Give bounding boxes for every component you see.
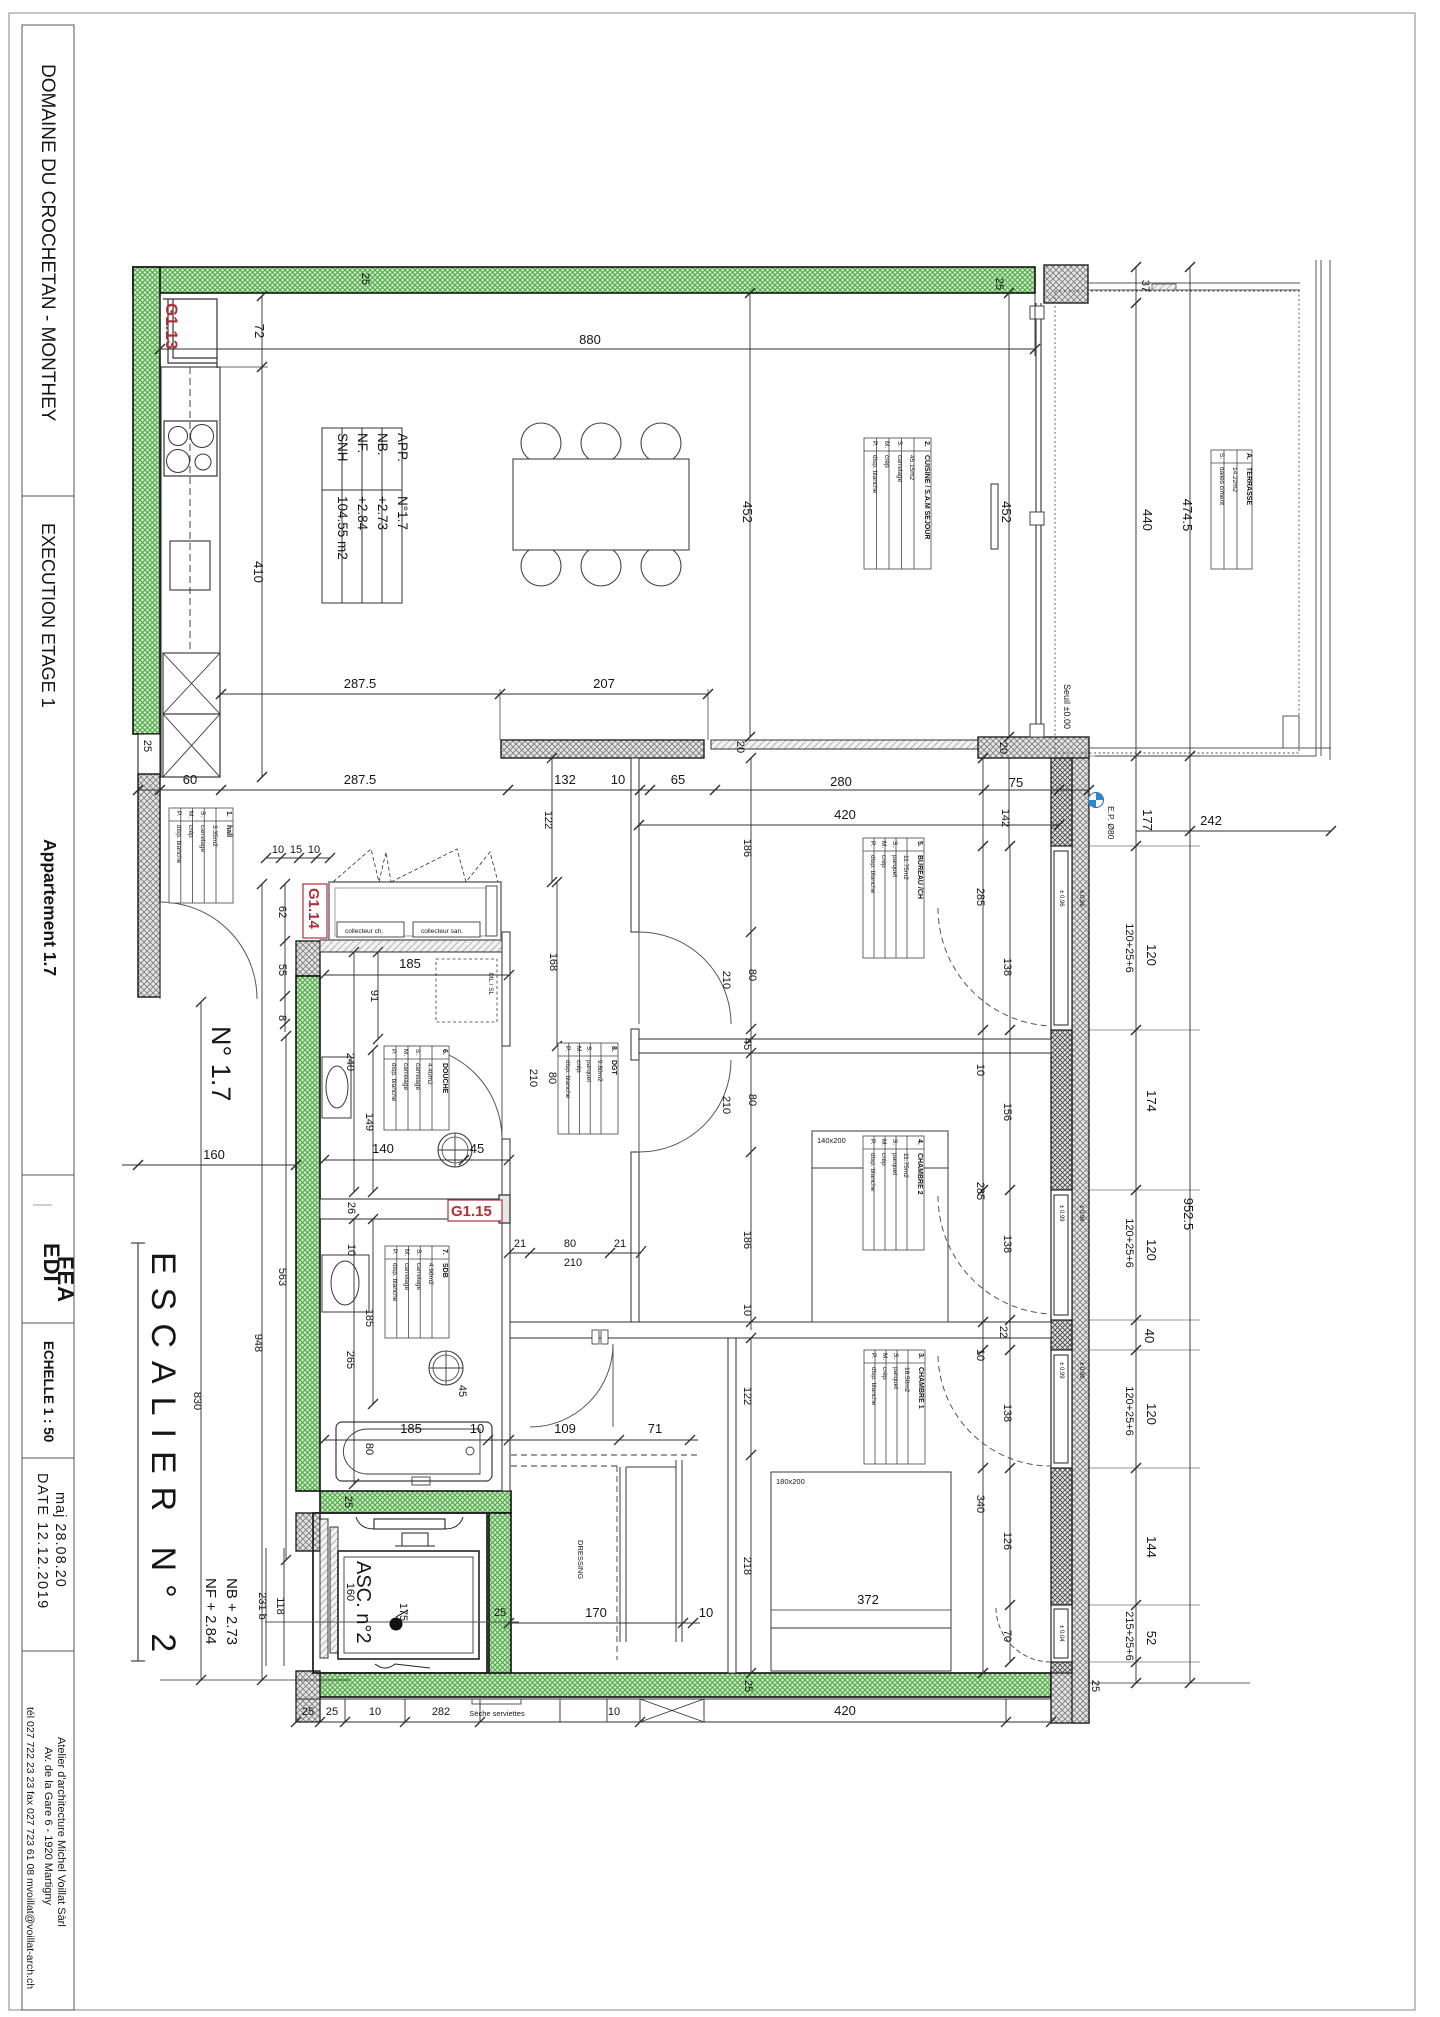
svg-text:disp. blanche: disp. blanche <box>871 455 878 494</box>
svg-text:11.75m2: 11.75m2 <box>902 855 909 880</box>
svg-text:crép: crép <box>575 1060 582 1073</box>
svg-text:S.: S. <box>892 1353 899 1359</box>
svg-text:563: 563 <box>276 1268 288 1286</box>
svg-text:55: 55 <box>276 964 288 976</box>
svg-text:hall: hall <box>225 825 232 837</box>
svg-text:± 0.99: ± 0.99 <box>1058 1205 1064 1222</box>
svg-text:340: 340 <box>974 1495 986 1513</box>
svg-text:6.: 6. <box>441 1049 448 1055</box>
niche right panel <box>486 886 497 936</box>
svg-text:CHAMBRE 2: CHAMBRE 2 <box>916 1153 923 1195</box>
svg-text:120: 120 <box>1144 944 1159 966</box>
svg-text:CHAMBRE 1: CHAMBRE 1 <box>917 1367 924 1409</box>
washbasin sdb <box>322 1255 369 1312</box>
terrace bottom lines <box>1088 747 1331 749</box>
svg-text:80: 80 <box>746 969 758 981</box>
svg-text:DGT: DGT <box>610 1060 617 1076</box>
sejour divider wall (gray) <box>501 740 704 758</box>
svg-text:G1.13: G1.13 <box>162 303 181 349</box>
closet unit <box>619 1467 621 1642</box>
svg-text:474.5: 474.5 <box>1180 499 1195 532</box>
dim 185 douche top <box>324 974 509 976</box>
svg-text:2.: 2. <box>923 441 930 447</box>
french door bureau (dashed) <box>938 908 1051 1026</box>
window bureau <box>1051 846 1072 1030</box>
svg-text:NF + 2.84: NF + 2.84 <box>202 1578 219 1644</box>
svg-text:10: 10 <box>741 1304 753 1316</box>
svg-text:11.75m2: 11.75m2 <box>902 1153 909 1178</box>
svg-text:SDB: SDB <box>441 1263 448 1278</box>
svg-text:186: 186 <box>741 1231 753 1249</box>
section line through shaft <box>265 1621 519 1623</box>
french door chambre2 (dashed) <box>938 1196 1051 1314</box>
dim line y=1440 sdb + corridor <box>324 1439 698 1441</box>
svg-text:138: 138 <box>1001 1404 1013 1422</box>
svg-text:M.: M. <box>881 1353 888 1360</box>
dim 122 corridor top <box>551 758 553 882</box>
svg-text:138: 138 <box>1001 958 1013 976</box>
svg-text:disp. blanche: disp. blanche <box>870 1367 877 1406</box>
counter centerline dashed <box>189 367 191 653</box>
room table hall <box>169 808 233 903</box>
svg-text:242: 242 <box>1200 813 1222 828</box>
svg-text:FEA: FEA <box>53 1256 78 1303</box>
svg-text:25: 25 <box>326 1706 338 1718</box>
tall cabinet 1 <box>163 653 220 714</box>
svg-text:132: 132 <box>554 772 576 787</box>
ML/SL dashed appliance box <box>436 959 497 1022</box>
right wall extension lines <box>1089 845 1200 847</box>
svg-text:parquet: parquet <box>891 855 898 877</box>
svg-text:collecteur ch.: collecteur ch. <box>345 928 383 935</box>
wall chambre2/chambre1 <box>509 1322 1051 1338</box>
dim 140/45 <box>324 1159 509 1161</box>
svg-text:25: 25 <box>494 1607 506 1619</box>
svg-text:62: 62 <box>276 906 288 918</box>
svg-text:80: 80 <box>546 1072 558 1084</box>
svg-text:420: 420 <box>834 1703 856 1718</box>
svg-text:NB.: NB. <box>375 433 390 456</box>
svg-text:25: 25 <box>742 1680 754 1692</box>
svg-text:144: 144 <box>1144 1536 1159 1558</box>
dim 21/80/21 <box>509 1252 641 1254</box>
svg-text:N°1.7: N°1.7 <box>395 496 410 530</box>
svg-text:TERRASSE: TERRASSE <box>1245 467 1252 505</box>
svg-text:P.: P. <box>175 811 182 816</box>
window chambre 1 small <box>1051 1605 1072 1662</box>
swing mark <box>390 1618 403 1631</box>
svg-text:210: 210 <box>527 1069 539 1087</box>
svg-text:± 0.99: ± 0.99 <box>1058 1362 1064 1379</box>
svg-text:± 0.96: ± 0.96 <box>1058 890 1064 907</box>
svg-text:120: 120 <box>1144 1239 1159 1261</box>
EDIFEA logo <box>33 1205 78 1303</box>
bottom dim row <box>296 1698 1051 1700</box>
svg-text:BUREAU /CH: BUREAU /CH <box>916 855 923 899</box>
svg-text:10: 10 <box>974 1064 986 1076</box>
wall dressing/chambre1 <box>728 1338 736 1673</box>
svg-text:ASC. n°2: ASC. n°2 <box>352 1561 374 1643</box>
svg-text:NF.: NF. <box>355 433 370 453</box>
svg-text:240: 240 <box>344 1053 356 1071</box>
bottom marks <box>375 1664 430 1668</box>
svg-text:4.40m2: 4.40m2 <box>426 1063 433 1085</box>
wall G1.15 (douche/sdb) <box>320 1199 509 1219</box>
pier bottom-left corner (gray) <box>296 1671 320 1722</box>
svg-text:± 0.04: ± 0.04 <box>1058 1625 1064 1642</box>
svg-text:3.35m2: 3.35m2 <box>211 825 218 847</box>
svg-text:Atelier d'architecture Michel: Atelier d'architecture Michel Voillat Sà… <box>55 1737 67 1927</box>
entrance wall pier (gray) above G1.14 <box>296 941 320 976</box>
svg-text:M.: M. <box>880 841 887 848</box>
svg-text:185: 185 <box>363 1309 375 1327</box>
svg-text:+2.84: +2.84 <box>355 496 370 531</box>
svg-text:440: 440 <box>1140 509 1155 531</box>
sink <box>170 541 210 590</box>
svg-text:8: 8 <box>276 1015 288 1021</box>
dim 452 sejour left <box>749 293 751 737</box>
french door chambre1 (dashed) <box>938 1356 1051 1466</box>
dim 91 <box>377 952 379 1039</box>
svg-text:452: 452 <box>740 501 755 523</box>
svg-text:18.50m2: 18.50m2 <box>903 1367 910 1393</box>
svg-text:E.P. Ø80: E.P. Ø80 <box>1106 806 1116 840</box>
svg-text:120: 120 <box>1144 1403 1159 1425</box>
svg-text:185: 185 <box>400 1421 422 1436</box>
svg-text:DOMAINE DU CROCHETAN - MONTHEY: DOMAINE DU CROCHETAN - MONTHEY <box>37 64 58 422</box>
svg-text:120+25+6: 120+25+6 <box>1123 1386 1135 1436</box>
inner chain x=983 <box>982 758 984 1673</box>
tall cabinet 2 <box>163 714 220 777</box>
svg-text:122: 122 <box>542 811 554 829</box>
room table douche <box>384 1046 449 1130</box>
svg-text:156: 156 <box>1001 1103 1013 1121</box>
svg-text:80: 80 <box>363 1443 375 1455</box>
svg-text:180x200: 180x200 <box>776 1477 805 1486</box>
exterior wall bottom (green) <box>319 1673 1051 1697</box>
svg-text:72: 72 <box>252 324 267 338</box>
svg-text:ESCALIER N° 2: ESCALIER N° 2 <box>144 1252 182 1665</box>
svg-text:P.: P. <box>871 441 878 446</box>
svg-text:Appartement 1.7: Appartement 1.7 <box>40 839 60 976</box>
dim 420 bottom <box>291 1717 1056 1727</box>
window chambre 2 <box>1051 1190 1072 1320</box>
svg-text:S.: S. <box>896 441 903 447</box>
svg-text:APP.: APP. <box>395 433 410 462</box>
svg-text:CUISINE / S.A.M SEJOUR: CUISINE / S.A.M SEJOUR <box>923 455 930 539</box>
svg-text:45.15m2: 45.15m2 <box>908 455 915 481</box>
svg-text:+2.73: +2.73 <box>375 496 390 530</box>
bathtub <box>336 1422 492 1481</box>
svg-text:10: 10 <box>611 772 625 787</box>
stair bracket <box>137 1243 139 1661</box>
room table terrasse <box>1211 450 1252 569</box>
dim 160 <box>122 1164 296 1166</box>
svg-text:45: 45 <box>456 1385 468 1397</box>
svg-text:disp. blanche: disp. blanche <box>390 1063 397 1102</box>
svg-text:210: 210 <box>720 971 732 989</box>
svg-text:140: 140 <box>372 1141 394 1156</box>
svg-text:carrelage: carrelage <box>402 1063 409 1090</box>
douche door <box>409 1046 502 1139</box>
svg-text:140x200: 140x200 <box>817 1136 846 1145</box>
svg-text:168: 168 <box>547 953 559 971</box>
svg-text:21: 21 <box>614 1238 626 1250</box>
svg-text:carrelage: carrelage <box>896 455 903 482</box>
wall under niche (hall/douche) <box>320 940 502 952</box>
svg-text:185: 185 <box>399 956 421 971</box>
door leaf G1.15 <box>499 1195 510 1223</box>
svg-text:G1.14: G1.14 <box>305 888 322 930</box>
svg-text:25: 25 <box>993 278 1005 290</box>
hob <box>164 421 217 476</box>
bed chambre 1 180x200 <box>771 1472 951 1671</box>
chambre 1 door <box>530 1344 613 1427</box>
room table chambre1 <box>864 1350 925 1464</box>
svg-text:45: 45 <box>470 1141 484 1156</box>
sdb chains <box>372 1219 374 1404</box>
svg-text:parquet: parquet <box>891 1153 898 1175</box>
svg-text:disp. blanche: disp. blanche <box>391 1263 398 1302</box>
bed chambre 2 140x200 <box>812 1131 948 1322</box>
svg-text:452: 452 <box>999 501 1014 523</box>
svg-text:G1.15: G1.15 <box>451 1203 492 1220</box>
washbasin douche <box>322 1057 351 1118</box>
svg-text:71: 71 <box>648 1421 662 1436</box>
niche outline <box>329 882 501 940</box>
svg-text:carrelage: carrelage <box>199 825 206 852</box>
svg-text:DATE 12.12.2019: DATE 12.12.2019 <box>34 1473 50 1610</box>
svg-text:crép: crép <box>883 455 890 468</box>
left chain x=285 (62/55/8) <box>284 884 286 1032</box>
svg-text:142: 142 <box>999 809 1011 827</box>
WC douche <box>438 1133 472 1167</box>
svg-text:26: 26 <box>345 1202 357 1214</box>
svg-text:N° 1.7: N° 1.7 <box>206 1026 236 1101</box>
entrance wall (green vertical) <box>296 976 320 1491</box>
chain x=751 upper <box>750 758 752 1330</box>
svg-text:45: 45 <box>741 1038 753 1050</box>
svg-text:ECHELLE 1 : 50: ECHELLE 1 : 50 <box>41 1341 56 1442</box>
svg-text:DRESSING: DRESSING <box>576 1540 585 1579</box>
svg-text:S.: S. <box>891 1139 898 1145</box>
E.P. rainwater symbol <box>1089 793 1117 840</box>
section line NB/NF <box>160 1679 350 1681</box>
svg-text:M.: M. <box>883 441 890 448</box>
svg-text:M.: M. <box>187 811 194 818</box>
svg-text:Seuil ±0.00: Seuil ±0.00 <box>1062 684 1072 729</box>
dashed shelf lines <box>511 1454 700 1456</box>
svg-text:P.: P. <box>564 1046 571 1051</box>
svg-text:4.90m2: 4.90m2 <box>427 1263 434 1285</box>
svg-text:25: 25 <box>342 1496 354 1508</box>
railing top <box>1088 282 1300 284</box>
svg-text:Sèche serviettes: Sèche serviettes <box>469 1709 525 1718</box>
svg-text:S.: S. <box>414 1049 421 1055</box>
terrace right edge double lines <box>1315 260 1317 756</box>
svg-text:carrelage: carrelage <box>414 1063 421 1090</box>
svg-text:218: 218 <box>741 1557 753 1575</box>
svg-text:SNH: SNH <box>335 433 350 462</box>
svg-text:160: 160 <box>203 1147 225 1162</box>
svg-text:91: 91 <box>368 990 380 1002</box>
svg-text:280: 280 <box>830 774 852 789</box>
chain x=1136 right <box>1135 267 1137 1683</box>
svg-text:880: 880 <box>579 332 601 347</box>
svg-text:21: 21 <box>514 1238 526 1250</box>
collecteur san. box <box>413 922 480 937</box>
svg-text:M.: M. <box>403 1249 410 1256</box>
svg-text:75: 75 <box>1009 775 1023 790</box>
svg-text:dalles ciment: dalles ciment <box>1218 467 1225 505</box>
svg-text:8.: 8. <box>610 1046 617 1052</box>
svg-text:149: 149 <box>363 1113 375 1131</box>
WC sdb <box>429 1351 463 1385</box>
right wall inner piers (dark hatch) <box>1051 758 1072 846</box>
svg-text:S.: S. <box>585 1046 592 1052</box>
svg-text:NB + 2.73: NB + 2.73 <box>223 1578 240 1645</box>
svg-text:285: 285 <box>974 1182 986 1200</box>
corridor wall lower <box>631 1152 639 1330</box>
wardrobe dashed zigzag <box>333 849 498 882</box>
svg-text:S.: S. <box>1218 453 1225 459</box>
svg-text:carrelage: carrelage <box>403 1263 410 1290</box>
pier left of elevator (gray) <box>296 1513 320 1551</box>
svg-text:118: 118 <box>274 1597 286 1615</box>
shaft <box>313 1513 489 1673</box>
exterior wall top (green) <box>133 267 1035 293</box>
inner chain x=1010 <box>1009 846 1011 1662</box>
window sill labels <box>1058 890 1084 1642</box>
svg-text:285: 285 <box>974 888 986 906</box>
svg-text:ML / SL: ML / SL <box>487 973 494 996</box>
svg-text:M.: M. <box>880 1139 887 1146</box>
corridor wall between doors <box>631 1029 639 1060</box>
left long chains <box>285 1036 287 1560</box>
svg-text:10: 10 <box>308 844 320 856</box>
svg-text:10: 10 <box>608 1706 620 1718</box>
chain x=751 lower <box>750 1338 752 1673</box>
corner piece right of thin wall (gray) <box>978 737 1089 758</box>
top-right pier (gray) <box>1044 265 1088 303</box>
svg-text:10: 10 <box>369 1706 381 1718</box>
svg-text:P.: P. <box>869 841 876 846</box>
svg-text:410: 410 <box>251 561 266 583</box>
svg-text:10: 10 <box>699 1605 713 1620</box>
dim 372 chambre1 <box>771 1609 951 1611</box>
french door chambre1 small (dashed) <box>996 1608 1051 1662</box>
svg-text:37: 37 <box>1139 280 1151 292</box>
svg-text:287.5: 287.5 <box>344 772 377 787</box>
kitchen counter outline <box>161 367 220 777</box>
svg-text:P.: P. <box>869 1139 876 1144</box>
door panel top <box>374 1519 445 1529</box>
box divider lines <box>22 495 74 497</box>
svg-text:65: 65 <box>671 772 685 787</box>
svg-text:tél 027 722 23 23 fax 027 723: tél 027 722 23 23 fax 027 723 61 08 mvoi… <box>24 1707 36 1989</box>
svg-text:crép: crép <box>880 855 887 868</box>
exterior wall left lower (gray) <box>138 774 160 997</box>
svg-text:948: 948 <box>252 1334 264 1352</box>
svg-text:collecteur san.: collecteur san. <box>421 928 463 935</box>
chain x=1190 (474.5 / 952.5) <box>1189 267 1191 1683</box>
svg-text:80: 80 <box>564 1238 576 1250</box>
svg-text:Av. de la Gare 6 - 1920 Martig: Av. de la Gare 6 - 1920 Martigny <box>42 1747 54 1905</box>
svg-text:S.: S. <box>415 1249 422 1255</box>
svg-text:maj 28.08.20: maj 28.08.20 <box>52 1492 68 1588</box>
svg-text:177: 177 <box>1140 809 1155 831</box>
door jamb marks chambre1 <box>592 1330 599 1344</box>
collecteur ch. box <box>337 922 404 937</box>
svg-text:carrelage: carrelage <box>415 1263 422 1290</box>
dim 452 sejour right <box>1008 293 1010 737</box>
svg-text:175: 175 <box>397 1603 409 1621</box>
svg-text:M.: M. <box>575 1046 582 1053</box>
svg-text:S.: S. <box>891 841 898 847</box>
exterior wall left upper (green) <box>133 267 160 734</box>
svg-text:parquet: parquet <box>892 1367 899 1389</box>
svg-text:138: 138 <box>1001 1235 1013 1253</box>
svg-text:210: 210 <box>564 1257 582 1269</box>
chambre 2 door <box>639 1060 731 1152</box>
svg-text:174: 174 <box>1144 1090 1159 1112</box>
svg-text:25: 25 <box>359 273 371 285</box>
room table bureau <box>863 838 924 958</box>
window chambre 1 <box>1051 1350 1072 1468</box>
svg-text:80: 80 <box>746 1094 758 1106</box>
svg-text:crép: crép <box>881 1367 888 1380</box>
room table dgt <box>558 1043 618 1134</box>
svg-text:60: 60 <box>183 772 197 787</box>
svg-text:± 0.96: ± 0.96 <box>1078 890 1084 907</box>
dim 240 / 149 <box>353 952 355 1192</box>
corridor wall (bureau side) upper <box>631 758 639 932</box>
dim 170/10 dressing <box>509 1622 700 1624</box>
svg-text:25: 25 <box>141 740 153 752</box>
svg-text:10: 10 <box>345 1244 357 1256</box>
dim 168 <box>556 882 558 1046</box>
button box <box>402 1533 428 1546</box>
thin 20cm wall sejour/bureau <box>711 740 978 749</box>
svg-text:25: 25 <box>1089 1680 1101 1692</box>
wall bureau/chambre2 <box>639 1039 1051 1053</box>
svg-text:disp. blanche: disp. blanche <box>869 1153 876 1192</box>
svg-text:207: 207 <box>593 676 615 691</box>
svg-text:282: 282 <box>432 1706 450 1718</box>
svg-text:A.: A. <box>1245 453 1252 460</box>
dim 420 bureau <box>639 824 1059 826</box>
svg-text:22: 22 <box>997 1326 1009 1338</box>
svg-text:P.: P. <box>870 1353 877 1358</box>
bureau door <box>639 932 731 1024</box>
pier bottom-right end (gray) <box>1051 1671 1089 1723</box>
svg-text:disp. blanche: disp. blanche <box>869 855 876 894</box>
strip outer box <box>22 25 74 2010</box>
svg-text:crép: crép <box>187 825 194 838</box>
dim 242 horizontal <box>1136 830 1331 832</box>
svg-text:52: 52 <box>1144 1631 1159 1645</box>
niche top dims line <box>266 857 330 859</box>
svg-text:70: 70 <box>1001 1630 1013 1642</box>
svg-text:215+25+6: 215+25+6 <box>1123 1611 1135 1661</box>
svg-text:7.: 7. <box>441 1249 448 1255</box>
svg-text:9.80m2: 9.80m2 <box>596 1060 603 1082</box>
room table sejour <box>864 438 931 569</box>
svg-text:4.: 4. <box>916 1139 923 1145</box>
wall above elevator (green horizontal) <box>320 1491 511 1513</box>
svg-text:20: 20 <box>997 742 1009 754</box>
svg-text:parquet: parquet <box>585 1060 592 1082</box>
